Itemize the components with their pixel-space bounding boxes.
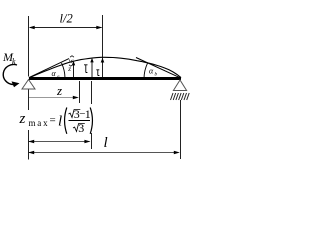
svg-text:max: max	[29, 118, 50, 128]
svg-text:l/2: l/2	[60, 12, 73, 26]
svg-text:k: k	[12, 57, 16, 66]
svg-text:l: l	[104, 135, 108, 151]
svg-text:3: 3	[78, 121, 84, 135]
svg-text:=: =	[50, 115, 56, 127]
svg-text:l: l	[58, 114, 62, 130]
svg-text:z: z	[19, 111, 26, 127]
svg-text:z: z	[56, 83, 62, 98]
svg-text:1: 1	[85, 107, 91, 121]
svg-text:w: w	[69, 57, 74, 65]
